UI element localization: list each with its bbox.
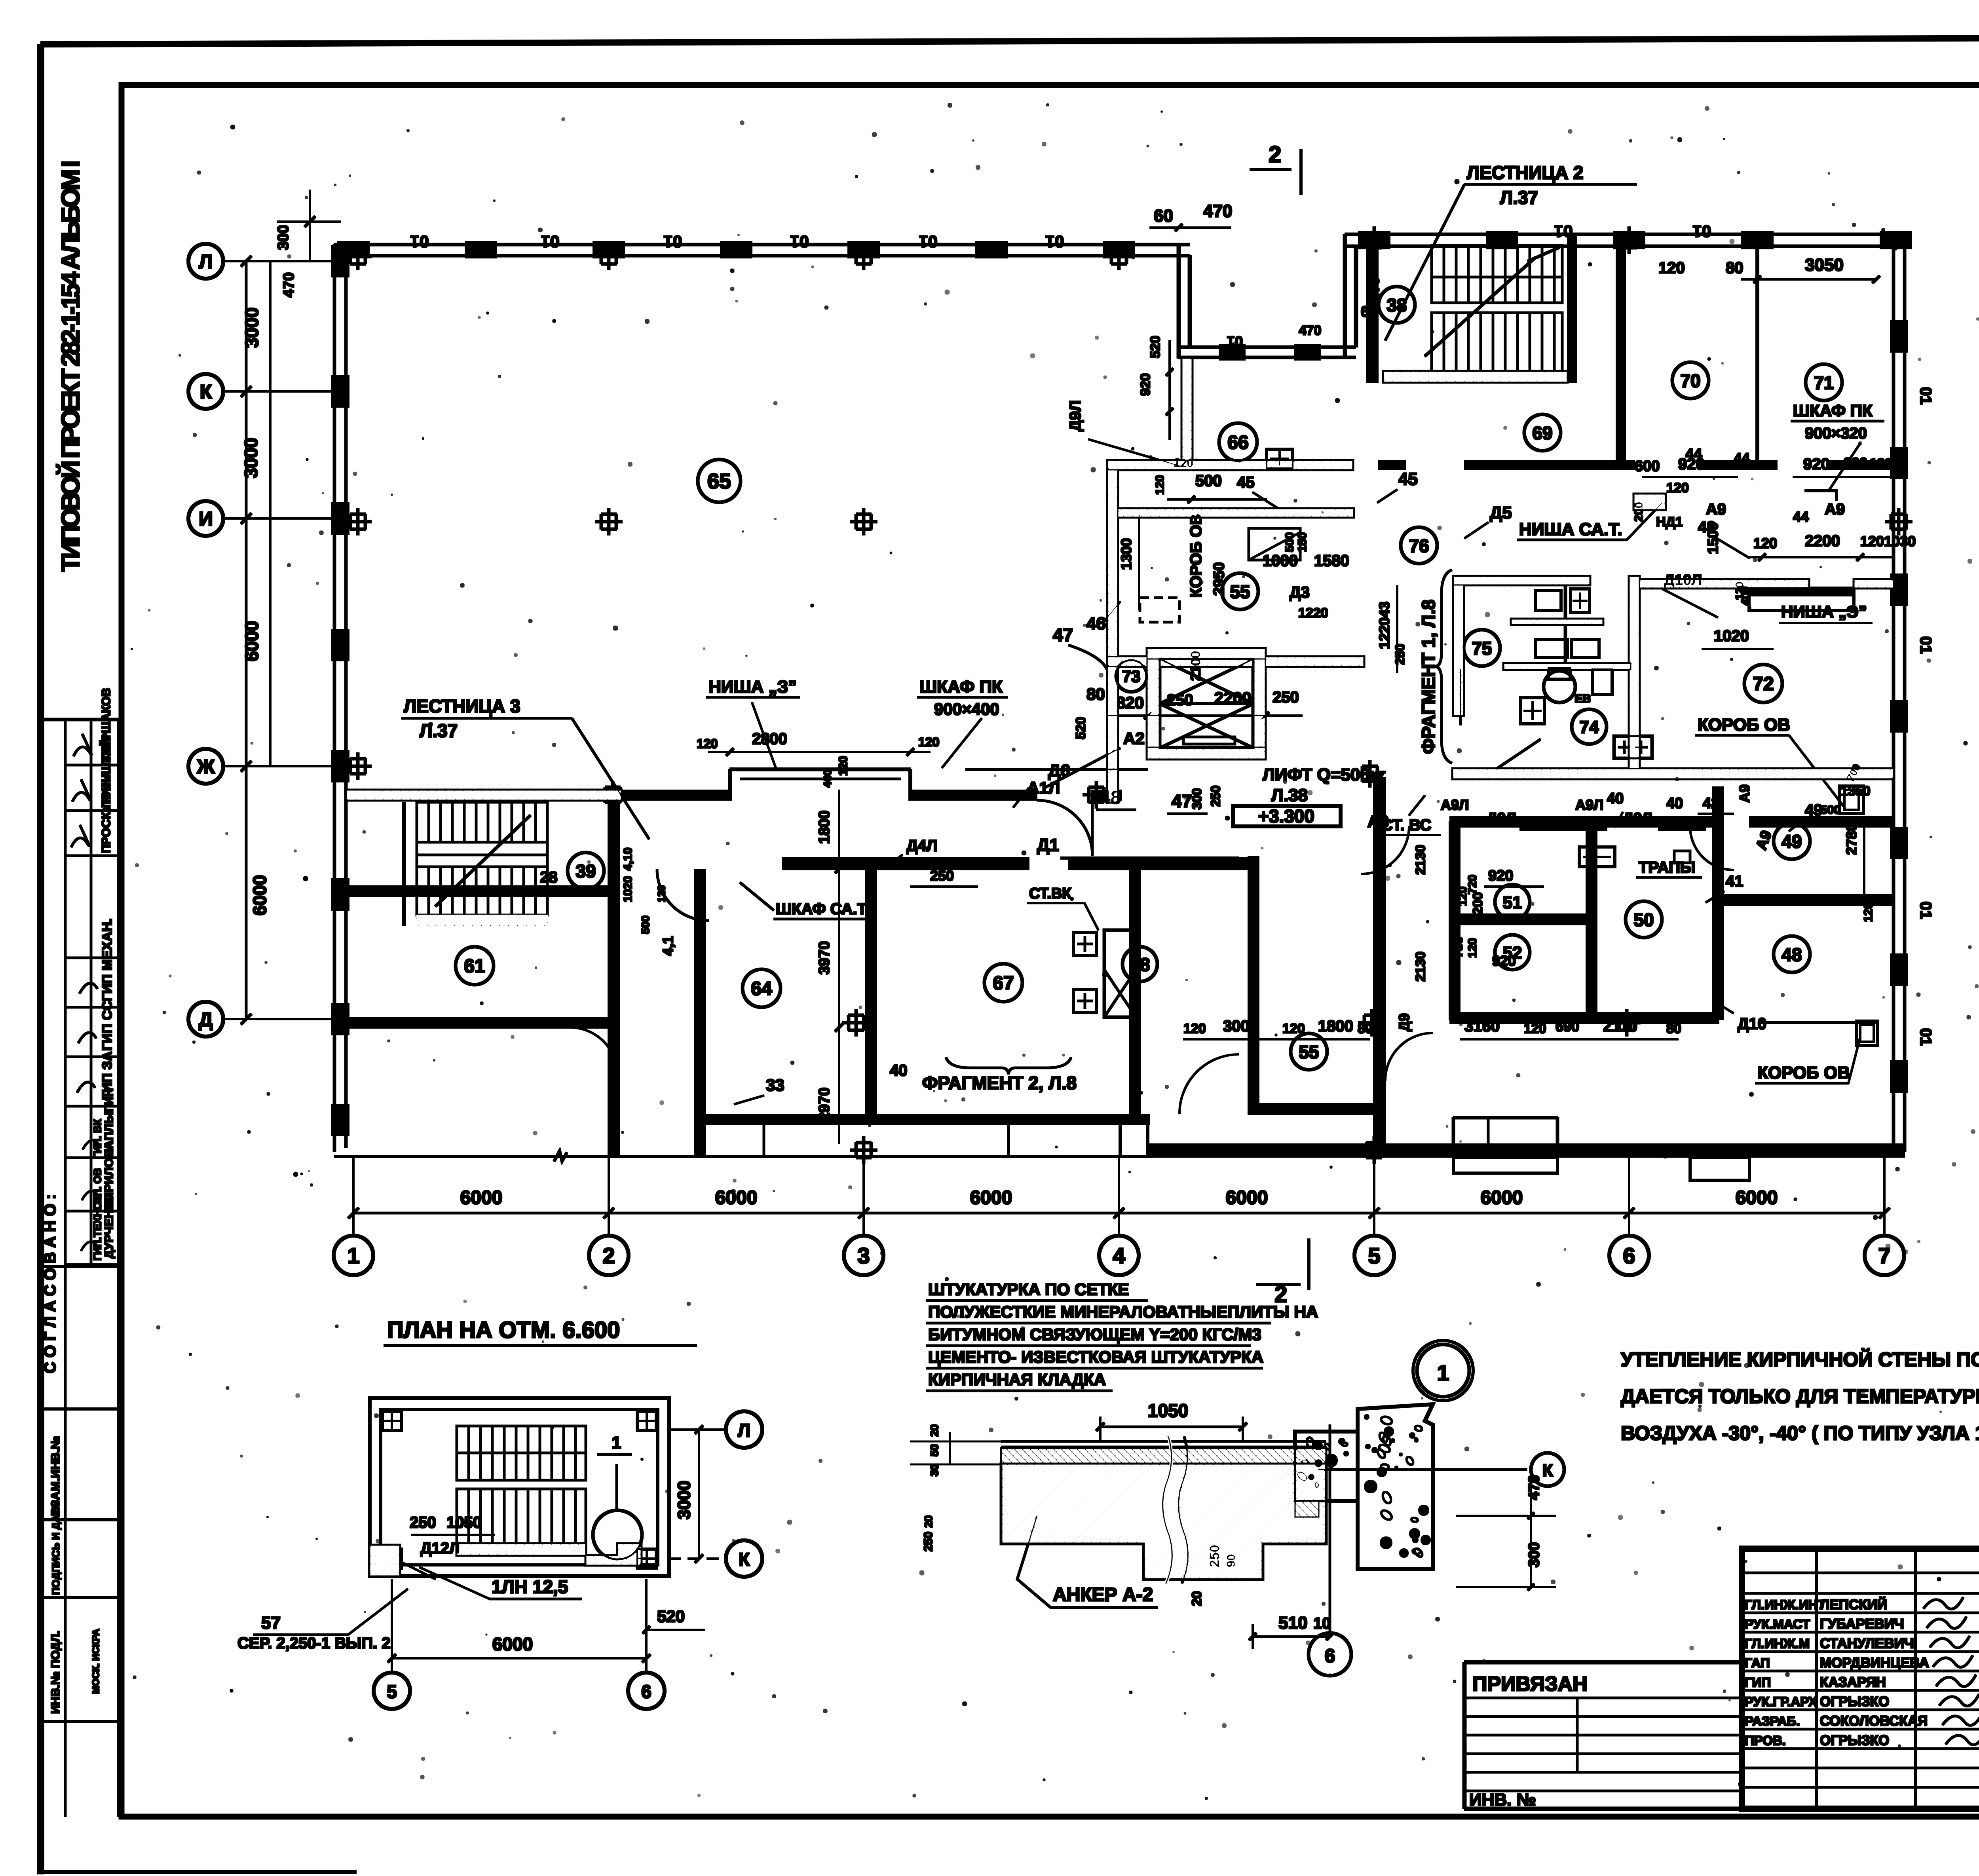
svg-text:67: 67	[993, 973, 1014, 994]
svg-text:4,1: 4,1	[660, 936, 676, 956]
st.VK label	[1027, 885, 1098, 930]
svg-text:01: 01	[1917, 1028, 1934, 1046]
svg-text:1050: 1050	[446, 1514, 482, 1531]
svg-text:470: 470	[1203, 201, 1232, 221]
svg-text:01: 01	[919, 232, 938, 251]
shkaf PK label	[917, 677, 1007, 768]
svg-text:А2: А2	[1123, 729, 1145, 748]
bottom step tab 2	[1690, 1157, 1749, 1180]
svg-text:60: 60	[1154, 206, 1173, 226]
svg-text:1220: 1220	[1376, 617, 1392, 649]
corridor wall left (axis Ж)	[346, 769, 1122, 800]
svg-text:120: 120	[655, 885, 667, 902]
privyazan box	[1464, 1662, 1742, 1810]
nisha E label	[707, 677, 800, 768]
svg-text:А1Л: А1Л	[1027, 779, 1060, 797]
door arc 64	[657, 869, 708, 921]
svg-text:К: К	[739, 1549, 750, 1570]
svg-text:ШКАФ ПК: ШКАФ ПК	[919, 677, 1003, 697]
lift shaft	[1147, 648, 1265, 759]
svg-text:75: 75	[1472, 638, 1492, 659]
svg-text:46: 46	[1086, 614, 1106, 633]
svg-text:ФРАГМЕНТ 1, Л.8: ФРАГМЕНТ 1, Л.8	[1418, 600, 1439, 754]
svg-text:55: 55	[1299, 1042, 1319, 1062]
svg-text:ПОЛУЖЕСТКИЕ МИНЕРАЛОВАТНЫЕПЛИТ: ПОЛУЖЕСТКИЕ МИНЕРАЛОВАТНЫЕПЛИТЫ НА	[928, 1303, 1318, 1321]
room 69	[1524, 414, 1561, 451]
svg-text:ЛЕСТНИЦА 3: ЛЕСТНИЦА 3	[404, 696, 520, 716]
WC block rooms 75 74	[1453, 576, 1639, 772]
svg-text:ОГРЫЗКО: ОГРЫЗКО	[1820, 1733, 1889, 1748]
svg-text:5: 5	[1368, 1243, 1380, 1268]
svg-text:390: 390	[1844, 455, 1867, 471]
corridor wall right mid	[1639, 579, 1894, 588]
svg-text:20: 20	[1189, 1591, 1204, 1606]
svg-text:120: 120	[1753, 535, 1777, 551]
left dimension string	[241, 190, 340, 1024]
left margin table GIP	[65, 918, 119, 1106]
svg-text:49: 49	[1781, 831, 1802, 852]
stair 3 Лестница 3	[404, 802, 547, 925]
svg-text:Д9Л: Д9Л	[1623, 810, 1652, 827]
svg-text:80: 80	[1726, 259, 1743, 277]
svg-text:30: 30	[928, 1464, 940, 1476]
dims fragment	[1290, 584, 1407, 831]
svg-text:И: И	[199, 508, 213, 530]
nisha SAT	[1517, 503, 1662, 540]
svg-text:120: 120	[1282, 1021, 1305, 1036]
svg-text:А9: А9	[1825, 501, 1845, 518]
stair3 label	[402, 696, 649, 839]
svg-text:69: 69	[1532, 423, 1552, 443]
svg-text:1: 1	[612, 1433, 621, 1453]
svg-text:01: 01	[1046, 232, 1064, 251]
vent box on corridor wall	[1614, 736, 1652, 758]
stair2 label	[1385, 162, 1637, 340]
svg-text:66: 66	[1227, 432, 1248, 453]
svg-text:64: 64	[751, 978, 772, 999]
svg-text:01: 01	[1693, 222, 1711, 241]
detail axis K	[1318, 1453, 1564, 1486]
svg-text:520: 520	[1073, 717, 1088, 739]
svg-text:1: 1	[347, 1243, 359, 1268]
room 73	[1115, 660, 1147, 692]
svg-text:ГУБАРЕВИЧ: ГУБАРЕВИЧ	[1820, 1616, 1904, 1632]
misc labels bottom left	[499, 848, 908, 1104]
svg-text:90: 90	[1225, 1554, 1238, 1567]
door label D1	[1037, 835, 1239, 858]
column markers	[344, 227, 1912, 1164]
svg-text:ТИПОВОЙ ПРОЕКТ 282-1-154 АЛЬ: ТИПОВОЙ ПРОЕКТ 282-1-154 АЛЬБОМ I	[56, 160, 85, 572]
svg-text:6000: 6000	[492, 1634, 533, 1654]
svg-text:3160: 3160	[1464, 1018, 1500, 1035]
svg-text:250: 250	[930, 868, 954, 884]
small box korob	[1840, 786, 1863, 814]
note paragraph	[1621, 1348, 1979, 1444]
svg-text:45: 45	[1398, 469, 1418, 489]
svg-text:1: 1	[1437, 1360, 1449, 1385]
labels 47 48	[966, 625, 1223, 814]
right wing walls	[1378, 234, 1894, 510]
svg-text:120: 120	[1666, 480, 1689, 496]
right exterior wall	[1890, 234, 1934, 1152]
small box wall66	[1267, 449, 1293, 468]
svg-text:2780: 2780	[1843, 823, 1859, 855]
shkaf SAT label	[740, 883, 877, 919]
svg-text:80: 80	[1666, 1021, 1681, 1036]
svg-text:6000: 6000	[241, 621, 262, 661]
svg-text:48: 48	[1781, 944, 1802, 965]
center block walls	[1107, 358, 1353, 802]
svg-text:120: 120	[1870, 456, 1892, 471]
room 76	[1401, 527, 1437, 564]
svg-text:120: 120	[837, 756, 850, 776]
small box korob2	[1856, 1021, 1878, 1046]
svg-text:48: 48	[1100, 787, 1121, 807]
svg-text:ЛЕСТНИЦА 2: ЛЕСТНИЦА 2	[1467, 162, 1584, 183]
bottom axis grid circles 1-7	[334, 1158, 1904, 1275]
room 52	[1495, 935, 1530, 970]
svg-text:ШКАФ ПК: ШКАФ ПК	[1793, 401, 1873, 420]
svg-text:СТ. ВС: СТ. ВС	[1381, 816, 1431, 834]
svg-text:А9Л: А9Л	[1441, 797, 1469, 813]
svg-text:470: 470	[1299, 323, 1322, 338]
svg-text:Л.37: Л.37	[420, 720, 458, 741]
svg-text:42: 42	[1703, 795, 1719, 812]
svg-text:10: 10	[1313, 1615, 1331, 1632]
detail slab	[1001, 1437, 1326, 1583]
svg-text:1800: 1800	[816, 811, 833, 844]
svg-text:120: 120	[1862, 902, 1875, 922]
svg-text:К: К	[200, 381, 212, 403]
svg-text:Д9: Д9	[1396, 1013, 1412, 1031]
svg-text:120: 120	[1153, 475, 1166, 495]
svg-text:28: 28	[540, 869, 558, 886]
svg-text:44: 44	[1793, 509, 1809, 525]
svg-text:120: 120	[1183, 1021, 1206, 1036]
svg-text:С О Г Л А С О В А Н О :: С О Г Л А С О В А Н О :	[42, 1194, 59, 1373]
svg-text:МОРДВИНЦЕВА: МОРДВИНЦЕВА	[1820, 1655, 1929, 1671]
dims 920 520 top	[1067, 336, 1183, 467]
svg-text:80: 80	[1086, 685, 1105, 703]
svg-text:57: 57	[261, 1613, 281, 1633]
svg-text:ИНВ.№ ПОДЛ.: ИНВ.№ ПОДЛ.	[49, 1631, 62, 1714]
svg-text:3000: 3000	[674, 1481, 694, 1519]
svg-text:Д6: Д6	[1048, 761, 1070, 780]
svg-text:2100: 2100	[1188, 651, 1203, 681]
dims 1200 lower	[1470, 883, 1490, 962]
svg-text:ШКАФ СА.Т: ШКАФ СА.Т	[776, 900, 867, 918]
svg-text:1050: 1050	[1148, 1400, 1188, 1421]
svg-text:300: 300	[275, 225, 292, 250]
svg-text:41: 41	[1726, 873, 1743, 890]
svg-text:А9: А9	[1706, 501, 1726, 518]
door label D10	[1714, 1001, 1876, 1033]
door label D4L	[887, 837, 938, 867]
svg-text:АНКЕР А-2: АНКЕР А-2	[1053, 1584, 1153, 1605]
nisha E right	[1662, 572, 1872, 649]
svg-text:820: 820	[1116, 693, 1144, 712]
svg-text:КОРОБ ОВ: КОРОБ ОВ	[1698, 715, 1790, 735]
svg-text:ВОЗДУХА -30°, -40° ( ПО ТИПУ: ВОЗДУХА -30°, -40° ( ПО ТИПУ УЗЛА 1)	[1621, 1422, 1979, 1444]
dims notch top	[1150, 201, 1382, 320]
svg-text:ЦЕМЕНТО- ИЗВЕСТКОВАЯ ШТУКАТУРК: ЦЕМЕНТО- ИЗВЕСТКОВАЯ ШТУКАТУРКА	[928, 1348, 1263, 1366]
door arc 61	[570, 1027, 617, 1075]
korob OV label mid	[1696, 715, 1844, 807]
detail circle 1	[1413, 1341, 1473, 1401]
svg-text:А9: А9	[1736, 784, 1753, 803]
svg-text:МОСК. ИСКРА: МОСК. ИСКРА	[91, 1629, 101, 1694]
svg-text:ЧАПЛЫГИН: ЧАПЛЫГИН	[103, 1088, 116, 1157]
svg-text:3: 3	[857, 1243, 870, 1268]
svg-text:ИНВ. №: ИНВ. №	[1469, 1790, 1536, 1810]
svg-text:6000: 6000	[249, 875, 270, 915]
svg-text:2800: 2800	[752, 730, 787, 748]
room 65	[698, 460, 741, 502]
porch inner lines	[763, 1125, 765, 1156]
room 66	[1219, 423, 1257, 461]
room 38	[1379, 287, 1415, 323]
svg-text:38: 38	[1386, 295, 1407, 315]
svg-text:01: 01	[1917, 636, 1934, 654]
svg-text:ПРИВЯЗАН: ПРИВЯЗАН	[1472, 1673, 1588, 1696]
svg-text:2: 2	[602, 1243, 615, 1268]
svg-text:Д5: Д5	[1490, 503, 1512, 522]
svg-text:1ЛН 12,5: 1ЛН 12,5	[492, 1576, 568, 1597]
corridor wall right of lift	[1356, 760, 1894, 787]
svg-text:БИТУМНОМ СВЯЗУЮЩЕМ Y=200 КГС/М: БИТУМНОМ СВЯЗУЮЩЕМ Y=200 КГС/М3	[928, 1325, 1261, 1344]
dims right wing top	[1632, 255, 1894, 530]
svg-text:44: 44	[1734, 450, 1750, 466]
svg-text:Д9Л: Д9Л	[1487, 810, 1516, 827]
svg-text:Ж: Ж	[196, 756, 215, 778]
section mark 2 bottom	[1257, 1239, 1309, 1307]
svg-text:4,10: 4,10	[621, 848, 634, 871]
entrance tambour bottom	[1453, 1118, 1557, 1144]
svg-text:44: 44	[1685, 446, 1702, 463]
svg-text:61: 61	[464, 956, 485, 977]
svg-text:780: 780	[1451, 937, 1465, 958]
door Д6 arc	[1037, 800, 1092, 856]
svg-text:47: 47	[1172, 791, 1192, 811]
svg-text:74: 74	[1580, 718, 1599, 737]
svg-text:Д3: Д3	[1290, 584, 1310, 601]
shkaf PK 900x320	[1791, 401, 1884, 500]
svg-text:120: 120	[697, 737, 718, 751]
svg-text:900×320: 900×320	[1805, 425, 1867, 442]
dashed nisha	[1140, 598, 1179, 622]
door labels D9L	[1487, 762, 1871, 852]
svg-text:5: 5	[387, 1681, 397, 1702]
svg-text:300: 300	[1526, 1542, 1542, 1567]
svg-text:73: 73	[1122, 667, 1141, 685]
room 39	[568, 853, 604, 889]
left exterior wall	[332, 245, 349, 1152]
svg-text:2130: 2130	[1413, 951, 1428, 982]
svg-text:43: 43	[1698, 518, 1716, 536]
svg-text:НД1: НД1	[1656, 515, 1683, 530]
room 72	[1744, 665, 1782, 703]
svg-text:500: 500	[1195, 472, 1222, 490]
svg-text:НИША СА.Т.: НИША СА.Т.	[1519, 520, 1622, 539]
svg-text:900×400: 900×400	[934, 700, 999, 718]
dims 1500 2200	[1705, 522, 1916, 561]
svg-text:КАЗАРЯН: КАЗАРЯН	[1820, 1675, 1886, 1690]
stair 2 Лестница 2	[1366, 234, 1567, 382]
svg-text:ГИП. ВК: ГИП. ВК	[91, 1119, 103, 1159]
svg-text:2110: 2110	[1603, 1018, 1637, 1035]
vertical album title	[56, 160, 85, 572]
svg-text:250: 250	[410, 1514, 436, 1531]
door D5	[1464, 465, 1615, 538]
svg-text:01: 01	[1917, 387, 1934, 405]
room 70	[1672, 362, 1709, 399]
svg-text:ПЛАН НА ОТМ. 6.600: ПЛАН НА ОТМ. 6.600	[387, 1317, 620, 1343]
room 51	[1495, 885, 1530, 919]
svg-text:3000: 3000	[1223, 1018, 1258, 1035]
svg-text:Л.38: Л.38	[1271, 786, 1308, 805]
svg-text:20: 20	[928, 1424, 940, 1437]
svg-text:01: 01	[541, 232, 560, 251]
svg-text:ЛЕПСКИЙ: ЛЕПСКИЙ	[1820, 1597, 1887, 1612]
svg-text:40: 40	[1666, 795, 1683, 812]
svg-text:6000: 6000	[715, 1187, 758, 1208]
svg-text:50: 50	[1633, 910, 1654, 930]
vertical dims x2100	[816, 790, 843, 1144]
svg-text:1020: 1020	[1714, 627, 1749, 645]
svg-text:ПРОСКУРИНА: ПРОСКУРИНА	[100, 771, 113, 853]
svg-text:470: 470	[281, 272, 297, 297]
svg-text:1350: 1350	[1840, 784, 1871, 799]
svg-text:50: 50	[928, 1444, 940, 1456]
svg-text:РАЗРАБ.: РАЗРАБ.	[1745, 1714, 1800, 1728]
svg-text:01: 01	[790, 232, 809, 251]
svg-text:76: 76	[1409, 535, 1429, 556]
bottom exterior wall	[334, 1125, 1905, 1161]
svg-text:1020: 1020	[621, 876, 634, 902]
room 49	[1774, 823, 1810, 859]
svg-text:1200: 1200	[1470, 892, 1485, 922]
left margin soglasovano	[42, 1088, 119, 1373]
svg-text:51: 51	[1503, 893, 1522, 912]
plan 6.600 dims	[388, 1426, 705, 1662]
svg-text:ДАЕТСЯ ТОЛЬКО ДЛЯ ТЕМПЕРАТУР: ДАЕТСЯ ТОЛЬКО ДЛЯ ТЕМПЕРАТУРЫ НАРУЖНОГО	[1621, 1385, 1979, 1407]
svg-text:РУК.ГР.АРХ: РУК.ГР.АРХ	[1745, 1694, 1817, 1709]
svg-text:1800: 1800	[1318, 1018, 1353, 1035]
svg-text:55: 55	[1230, 581, 1250, 602]
detail text stack	[926, 1280, 1318, 1391]
svg-text:1220: 1220	[1298, 606, 1328, 621]
svg-text:СОКОЛОВСКАЯ: СОКОЛОВСКАЯ	[1820, 1713, 1928, 1729]
svg-text:СЕР. 2,250-1 ВЫП. 2: СЕР. 2,250-1 ВЫП. 2	[237, 1635, 391, 1652]
svg-text:120: 120	[1860, 533, 1884, 549]
svg-text:01: 01	[410, 232, 429, 251]
svg-text:120: 120	[918, 735, 939, 749]
svg-text:43: 43	[1376, 602, 1392, 617]
svg-text:ГАП: ГАП	[1745, 1656, 1770, 1670]
title block grid and names	[1742, 1549, 1979, 1809]
left margin table upper	[41, 688, 119, 1817]
svg-text:120: 120	[1658, 259, 1685, 277]
svg-text:40: 40	[1607, 790, 1624, 807]
anker label	[1017, 1516, 1158, 1608]
plan 6.600 title	[384, 1317, 697, 1346]
svg-text:120: 120	[1174, 457, 1193, 470]
svg-text:ТРАПЫ: ТРАПЫ	[1639, 859, 1696, 876]
svg-text:250: 250	[1272, 689, 1299, 706]
left margin bottom strip	[41, 1266, 119, 1722]
svg-text:250: 250	[1393, 644, 1407, 665]
room 71	[1806, 364, 1842, 401]
plan 6.600 series label	[237, 1589, 408, 1652]
svg-text:70: 70	[1680, 370, 1700, 391]
svg-text:ГИП МЕХАН.: ГИП МЕХАН.	[100, 918, 115, 1001]
svg-text:470: 470	[1526, 1475, 1542, 1500]
svg-text:6000: 6000	[1481, 1187, 1523, 1208]
dims above niche	[697, 730, 939, 788]
door label D6	[1013, 761, 1070, 807]
svg-text:400: 400	[821, 769, 834, 788]
svg-text:ГИП: ГИП	[1745, 1675, 1771, 1690]
svg-text:ФРАГМЕНТ 2, Л.8: ФРАГМЕНТ 2, Л.8	[922, 1073, 1077, 1093]
svg-text:68: 68	[1130, 954, 1150, 975]
label 49 small	[1789, 801, 1875, 922]
label 46	[1086, 602, 1120, 633]
label 41	[1706, 873, 1743, 902]
svg-text:300: 300	[1190, 788, 1204, 809]
svg-text:ГЛ.ИНЖ.М: ГЛ.ИНЖ.М	[1745, 1636, 1810, 1651]
dim 250 label	[910, 868, 978, 887]
svg-text:Л: Л	[199, 251, 213, 273]
svg-text:01: 01	[1227, 333, 1243, 349]
svg-text:920: 920	[1488, 868, 1513, 884]
svg-text:6: 6	[1325, 1646, 1335, 1667]
svg-text:250: 250	[1208, 786, 1223, 807]
svg-text:Л: Л	[738, 1420, 750, 1441]
svg-text:500: 500	[1821, 803, 1840, 816]
room 48	[1774, 936, 1810, 972]
room 61	[456, 947, 494, 985]
svg-text:6000: 6000	[970, 1187, 1012, 1208]
plan 6.600 outline and stair	[370, 1398, 669, 1576]
section mark 2 top	[1250, 142, 1301, 195]
svg-text:65: 65	[707, 469, 731, 493]
svg-text:200: 200	[1632, 502, 1645, 522]
svg-text:3970: 3970	[816, 941, 833, 975]
svg-text:ПРОВ.: ПРОВ.	[1745, 1733, 1786, 1748]
svg-text:1300: 1300	[1118, 538, 1134, 570]
svg-text:А9Л: А9Л	[1575, 797, 1603, 813]
svg-text:ГИП. ОВ: ГИП. ОВ	[91, 1168, 103, 1210]
svg-text:2950: 2950	[1211, 562, 1227, 596]
svg-text:Д12Л: Д12Л	[420, 1540, 460, 1557]
bottom step tab 1	[1453, 1157, 1557, 1173]
svg-text:920: 920	[1138, 373, 1153, 396]
room 55 lower	[1291, 1033, 1327, 1070]
svg-text:К: К	[1542, 1461, 1553, 1480]
svg-text:2200: 2200	[1805, 532, 1840, 550]
bottom door arcs	[1179, 826, 1734, 1114]
svg-text:ПОДПИСЬ И ДАТА: ПОДПИСЬ И ДАТА	[50, 1502, 62, 1595]
svg-text:РУК.МАСТ: РУК.МАСТ	[1745, 1617, 1810, 1631]
korob OV vertical	[1187, 513, 1227, 598]
svg-text:01: 01	[664, 232, 682, 251]
svg-text:КИРПИЧНАЯ КЛАДКА: КИРПИЧНАЯ КЛАДКА	[928, 1370, 1106, 1389]
svg-text:6000: 6000	[460, 1187, 503, 1208]
svg-text:Д4Л: Д4Л	[906, 837, 938, 854]
svg-text:СТ.ВК: СТ.ВК	[1029, 885, 1071, 902]
svg-text:510: 510	[1278, 1613, 1307, 1633]
svg-text:71: 71	[1814, 372, 1834, 393]
